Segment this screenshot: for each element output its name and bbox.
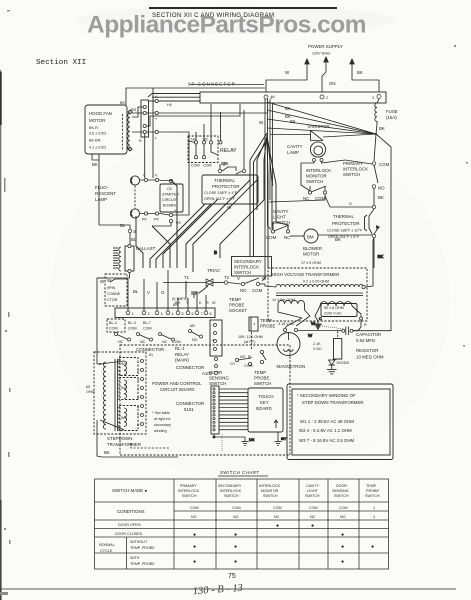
HV primary left wire	[265, 284, 276, 287]
power and control circuit board dashed box	[120, 345, 290, 455]
svg-text:SECONDARY: SECONDARY	[218, 484, 242, 488]
svg-text:SWITCH: SWITCH	[182, 494, 197, 498]
svg-text:COM: COM	[109, 327, 118, 331]
svg-text:COM: COM	[172, 340, 181, 344]
svg-text:B: B	[214, 250, 217, 255]
svg-text:T1: T1	[184, 275, 190, 280]
ballast	[97, 244, 156, 284]
svg-text:CAVITY: CAVITY	[273, 209, 289, 214]
svg-text:W1: W1	[121, 362, 127, 366]
temp probe socket	[229, 297, 247, 313]
svg-text:0.2 ± 0.05 OHM: 0.2 ± 0.05 OHM	[303, 280, 329, 284]
svg-text:T2: T2	[224, 275, 230, 280]
svg-text:RELAY: RELAY	[220, 148, 237, 154]
magnetron V1	[277, 328, 343, 369]
svg-text:BK: BK	[104, 450, 110, 455]
svg-text:COM: COM	[191, 164, 200, 168]
svg-text:THERMAL: THERMAL	[333, 214, 355, 219]
svg-text:PROBE: PROBE	[366, 489, 379, 493]
svg-text:TEMP. PROBE: TEMP. PROBE	[130, 562, 155, 566]
svg-text:TEMP: TEMP	[254, 370, 266, 375]
svg-text:POWER AND CONTROL: POWER AND CONTROL	[152, 381, 202, 386]
svg-text:TEMP: TEMP	[229, 297, 241, 302]
svg-text:OPEN 251°F ± 5°F: OPEN 251°F ± 5°F	[328, 235, 360, 239]
svg-text:FUSE: FUSE	[386, 109, 398, 114]
svg-text:NC: NC	[140, 340, 146, 344]
svg-text:PRIMARY: PRIMARY	[343, 161, 363, 166]
secondary interlock switch	[228, 257, 272, 294]
svg-text:* SECONDARY WINDING OF: * SECONDARY WINDING OF	[297, 393, 356, 398]
svg-text:3.6 ± 0.5Ω: 3.6 ± 0.5Ω	[89, 132, 106, 136]
svg-text:NC: NC	[284, 235, 290, 240]
svg-text:●: ●	[341, 532, 344, 538]
svg-text:NC: NC	[118, 340, 124, 344]
svg-text:COM: COM	[128, 327, 137, 331]
temp probe	[238, 317, 275, 350]
svg-text:SWITCH: SWITCH	[209, 381, 226, 386]
svg-text:MOTOR: MOTOR	[89, 118, 105, 123]
svg-text:SWITCH: SWITCH	[224, 494, 239, 498]
svg-text:DOOR: DOOR	[336, 484, 347, 488]
svg-text:HX: HX	[167, 103, 173, 107]
svg-text:W1 1 - 2 38.5V AC 48 OHM: W1 1 - 2 38.5V AC 48 OHM	[300, 419, 354, 424]
svg-text:R: R	[139, 139, 142, 143]
fluorescent lamp	[95, 88, 160, 222]
svg-text:CONNECTOR: CONNECTOR	[176, 365, 204, 370]
svg-text:NO: NO	[378, 186, 385, 191]
svg-text:CTOR: CTOR	[107, 298, 118, 302]
filament ground W	[315, 317, 345, 329]
svg-text:DOOR OPEN: DOOR OPEN	[118, 523, 141, 527]
svg-text:COM: COM	[252, 288, 263, 293]
hood fan wires	[92, 88, 268, 225]
switch chart title	[218, 470, 268, 476]
svg-text:SWITCH: SWITCH	[334, 494, 349, 498]
svg-text:RELAY: RELAY	[175, 352, 189, 357]
svg-text:2.1K: 2.1K	[313, 342, 321, 346]
svg-text:75: 75	[228, 573, 236, 580]
temp probe switch	[254, 350, 271, 386]
svg-text:0.92 MFD: 0.92 MFD	[356, 338, 375, 343]
svg-text:CONNECTOR: CONNECTOR	[136, 347, 164, 352]
svg-text:CONNECTOR: CONNECTOR	[176, 401, 204, 406]
svg-text:4: 4	[172, 312, 174, 316]
svg-text:3.15 V AC: 3.15 V AC	[278, 322, 295, 326]
svg-text:VARISTOR: VARISTOR	[308, 124, 330, 129]
svg-text:CAVITY: CAVITY	[287, 144, 303, 149]
svg-text:8: 8	[210, 312, 212, 316]
svg-text:(MAIN): (MAIN)	[175, 358, 189, 363]
svg-text:R: R	[206, 301, 209, 305]
svg-text:5: 5	[182, 312, 184, 316]
hood fan motor box	[85, 105, 127, 154]
svg-text:BL-3: BL-3	[128, 321, 136, 325]
svg-text:at right for: at right for	[154, 417, 171, 421]
connector RL-1 relay main labels	[136, 346, 213, 376]
svg-text:NO: NO	[191, 515, 197, 519]
row door open	[118, 523, 314, 529]
diode D1	[329, 359, 350, 369]
strip wire labels	[133, 289, 216, 305]
svg-text:LAMP: LAMP	[287, 150, 299, 155]
power supply label	[308, 44, 343, 56]
svg-text:STEPDOWN: STEPDOWN	[107, 436, 132, 441]
row door closed	[115, 532, 344, 538]
conditions rows	[117, 506, 375, 519]
svg-text:BL-4: BL-4	[109, 321, 117, 325]
node fuse-junction BK	[375, 126, 385, 135]
scan top edge line	[149, 7, 337, 9]
svg-text:10 MEG OHM: 10 MEG OHM	[356, 355, 384, 360]
relay main contact row	[107, 319, 203, 344]
svg-text:G: G	[349, 202, 352, 206]
svg-text:A102: A102	[202, 371, 213, 376]
svg-text:BK: BK	[285, 106, 291, 111]
svg-text:●: ●	[234, 532, 237, 538]
svg-text:POWER SUPPLY: POWER SUPPLY	[308, 44, 343, 49]
svg-text:50 ± 8 OHM: 50 ± 8 OHM	[324, 306, 344, 310]
bus pin 1	[264, 95, 268, 99]
primary interlock switch	[343, 134, 390, 206]
row normal cycle	[99, 540, 374, 566]
svg-text:DIODE: DIODE	[337, 360, 350, 365]
ballast S terminal	[99, 223, 137, 246]
svg-text:PROBE: PROBE	[229, 303, 244, 308]
svg-text:9P CONNECTOR: 9P CONNECTOR	[188, 82, 236, 87]
cavity light switch	[266, 209, 290, 240]
svg-text:BR: BR	[221, 161, 227, 166]
svg-text:BL: BL	[133, 289, 139, 294]
svg-text:BK: BK	[335, 237, 341, 242]
svg-text:* See table: * See table	[152, 411, 170, 415]
svg-text:5101: 5101	[184, 407, 194, 412]
svg-text:INTERLOCK: INTERLOCK	[220, 489, 242, 493]
svg-text:SECONDARY: SECONDARY	[234, 259, 262, 264]
svg-text:BR: BR	[131, 108, 136, 112]
wire fan pin1 to fuse node	[267, 102, 376, 134]
right outer wire BK	[376, 134, 391, 268]
svg-text:2: 2	[148, 312, 150, 316]
svg-text:CLOSE 158°F ± 4°F: CLOSE 158°F ± 4°F	[204, 191, 238, 195]
svg-text:INTERLOCK: INTERLOCK	[259, 484, 281, 488]
bus pin 2	[320, 95, 324, 99]
svg-text:PK: PK	[154, 218, 159, 222]
triac	[163, 268, 230, 295]
svg-text:FLUO-: FLUO-	[95, 185, 109, 190]
svg-text:DN: DN	[249, 438, 255, 442]
svg-text:W: W	[271, 94, 275, 99]
svg-text:BL-7: BL-7	[143, 321, 151, 325]
svg-text:BOARD: BOARD	[256, 406, 272, 411]
svg-text:AppliancePartsPros.com: AppliancePartsPros.com	[87, 12, 366, 39]
svg-text:BK: BK	[120, 101, 125, 105]
ground at diode	[327, 370, 337, 374]
svg-text:O: O	[161, 290, 165, 295]
svg-text:STEP DOWN TRANSFORMER: STEP DOWN TRANSFORMER	[302, 400, 364, 405]
svg-text:SWITCH: SWITCH	[234, 270, 251, 275]
capacitor C1	[342, 320, 381, 344]
svg-text:MONITOR: MONITOR	[261, 489, 279, 493]
door sensing switch	[209, 355, 253, 386]
svg-text:1: 1	[132, 312, 134, 316]
svg-text:HOOD FAN: HOOD FAN	[89, 111, 112, 116]
svg-text:65: 65	[86, 385, 90, 389]
svg-text:INTERLOCK: INTERLOCK	[178, 489, 200, 493]
svg-text:2: 2	[326, 96, 328, 100]
svg-text:NO: NO	[240, 288, 247, 293]
thermal protector (hood)	[202, 110, 258, 210]
svg-text:WITHOUT: WITHOUT	[130, 540, 148, 544]
table header texts	[112, 484, 380, 498]
svg-text:PRIMARY: PRIMARY	[180, 484, 197, 488]
svg-text:NO: NO	[340, 515, 346, 519]
svg-text:O2: O2	[167, 187, 172, 191]
svg-text:1: 1	[373, 506, 375, 510]
svg-text:CIRCUIT: CIRCUIT	[162, 198, 178, 202]
svg-text:NC: NC	[162, 340, 168, 344]
svg-text:BL: BL	[120, 223, 126, 228]
varistor RV1	[270, 119, 376, 141]
HV secondary high voltage winding	[315, 302, 363, 322]
svg-text:V: V	[147, 290, 150, 295]
capacitor 0.1MFD	[172, 284, 197, 307]
connector A102 lower pins	[215, 358, 218, 375]
svg-text:INTERLOCK: INTERLOCK	[343, 167, 368, 172]
right outer wire to capacitor	[353, 268, 391, 331]
svg-text:BK-R:: BK-R:	[89, 126, 99, 130]
touch key board	[248, 388, 283, 432]
interlock monitor switch	[269, 168, 372, 207]
svg-text:CONNE: CONNE	[107, 292, 121, 296]
svg-text:●: ●	[311, 523, 314, 529]
svg-text:BM: BM	[307, 235, 314, 240]
svg-text:SWITCH: SWITCH	[306, 179, 323, 184]
svg-text:COM: COM	[244, 364, 253, 368]
svg-text:(15A): (15A)	[386, 115, 397, 120]
svg-text:W3 7 - 8 16.8V AC 2.5 OH: W3 7 - 8 16.8V AC 2.5 OHM	[299, 438, 354, 443]
blower motor BM	[290, 229, 372, 265]
svg-text:MONITOR: MONITOR	[306, 174, 327, 179]
svg-text:CLOSE 186°F ± 10°F: CLOSE 186°F ± 10°F	[327, 229, 363, 233]
9P connector bus	[152, 92, 386, 103]
svg-text:BK: BK	[357, 70, 363, 75]
svg-text:COM: COM	[273, 506, 282, 510]
svg-text:3: 3	[372, 96, 374, 100]
svg-text:WITH: WITH	[130, 556, 140, 560]
svg-text:NO: NO	[240, 355, 246, 359]
svg-text:●: ●	[341, 544, 344, 550]
svg-text:THERMAL: THERMAL	[214, 178, 236, 183]
switch chart table	[95, 479, 389, 569]
svg-text:●: ●	[193, 559, 196, 565]
svg-text:4.1 ± 0.5Ω: 4.1 ± 0.5Ω	[89, 146, 106, 150]
svg-text:SENSING: SENSING	[332, 489, 349, 493]
svg-text:7: 7	[155, 118, 157, 122]
svg-text:SWITCH CHART: SWITCH CHART	[220, 470, 260, 475]
svg-text:●: ●	[193, 544, 196, 550]
svg-text:PROBE: PROBE	[260, 324, 275, 329]
fuse F1	[375, 99, 398, 134]
svg-text:●: ●	[371, 544, 374, 550]
svg-text:BK-BR:: BK-BR:	[89, 139, 101, 143]
svg-text:●: ●	[276, 523, 279, 529]
svg-text:W2: W2	[121, 386, 127, 390]
central wire fan ribbons	[136, 133, 288, 272]
9P connector pointer line	[190, 84, 264, 86]
strip feeder wires	[97, 270, 206, 364]
HV secondary filament winding	[272, 298, 310, 326]
svg-text:HIGH VOLTAGE TRANSFORMER: HIGH VOLTAGE TRANSFORMER	[272, 272, 339, 277]
svg-text:BLOWER: BLOWER	[303, 246, 322, 251]
cavity lamp	[287, 142, 372, 191]
svg-text:7: 7	[201, 312, 203, 316]
high voltage transformer box	[268, 268, 367, 321]
svg-text:4: 4	[212, 339, 214, 343]
svg-text:Section XII: Section XII	[36, 59, 86, 67]
svg-text:CONDITIONS: CONDITIONS	[117, 509, 145, 514]
magnetron filament node	[285, 316, 313, 338]
svg-text:SWITCH: SWITCH	[254, 381, 271, 386]
svg-text:PK: PK	[142, 218, 147, 222]
svg-text:3: 3	[373, 515, 375, 519]
svg-text:10K: 12K OHM: 10K: 12K OHM	[238, 335, 263, 339]
svg-text:LAMP: LAMP	[95, 197, 107, 202]
svg-text:CYCLE: CYCLE	[100, 549, 113, 553]
svg-text:BOARD: BOARD	[163, 204, 176, 208]
ground at HV filament	[311, 321, 322, 329]
step down transformer	[86, 352, 178, 457]
svg-text:W3: W3	[121, 416, 127, 420]
svg-text:MAGNETRON: MAGNETRON	[277, 364, 306, 369]
svg-text:9PIN: 9PIN	[107, 286, 116, 290]
svg-text:14 ± 5m OHM: 14 ± 5m OHM	[272, 298, 295, 302]
svg-text:LIGHT: LIGHT	[307, 489, 319, 493]
svg-text:M2: M2	[190, 324, 195, 328]
wire bundle from pin1 hub	[262, 99, 273, 281]
svg-text:51: 51	[149, 353, 153, 357]
svg-text:SOCKET: SOCKET	[229, 308, 247, 313]
svg-text:3: 3	[161, 312, 163, 316]
svg-text:COM: COM	[232, 506, 241, 510]
svg-text:CAVITY: CAVITY	[306, 484, 320, 488]
power supply arrows	[266, 57, 379, 92]
svg-text:BK: BK	[92, 162, 98, 167]
svg-text:MOTOR: MOTOR	[303, 252, 319, 257]
svg-text:GN: GN	[329, 81, 336, 86]
thermal protector (blower)	[327, 205, 380, 268]
svg-text:TRIAC: TRIAC	[207, 268, 220, 273]
svg-text:KEY: KEY	[260, 400, 269, 405]
svg-text:NORMAL: NORMAL	[99, 543, 115, 547]
svg-text:●: ●	[234, 559, 237, 565]
svg-text:secondary: secondary	[154, 423, 171, 427]
HV primary right terminal	[362, 238, 374, 289]
scan left edge	[0, 70, 2, 600]
svg-text:SWITCH: SWITCH	[343, 172, 360, 177]
svg-text:W2 4 - 6 2.8V AC 1.1 OH: W2 4 - 6 2.8V AC 1.1 OHM	[299, 428, 352, 433]
svg-text:R: R	[364, 323, 367, 327]
svg-text:GY: GY	[230, 362, 236, 366]
svg-text:SWITCH: SWITCH	[263, 494, 278, 498]
svg-text:COM: COM	[143, 327, 152, 331]
svg-text:COM: COM	[203, 164, 212, 168]
svg-text:C: C	[319, 317, 322, 321]
scan bottom line	[0, 588, 456, 590]
svg-text:2100 V AC: 2100 V AC	[324, 312, 342, 316]
9 pin connector label box	[105, 274, 127, 306]
svg-text:W: W	[212, 301, 216, 305]
svg-text:17 ± 3 OHM: 17 ± 3 OHM	[301, 261, 321, 265]
svg-text:winding: winding	[154, 429, 167, 433]
svg-text:BK: BK	[379, 126, 385, 131]
svg-text:BK: BK	[378, 254, 384, 259]
svg-text:RESISTOR: RESISTOR	[356, 348, 378, 353]
resistor R1	[313, 331, 384, 360]
svg-text:NC: NC	[310, 515, 316, 519]
svg-text:COM: COM	[379, 162, 390, 167]
svg-text:6: 6	[192, 312, 194, 316]
svg-text:TRANSFORMER: TRANSFORMER	[107, 442, 141, 447]
svg-text:SWITCH: SWITCH	[305, 494, 320, 498]
svg-text:COM: COM	[339, 506, 348, 510]
svg-text:●: ●	[341, 559, 344, 565]
svg-text:V: V	[237, 276, 240, 281]
svg-text:DOOR CLOSED: DOOR CLOSED	[115, 532, 143, 536]
svg-text:COM: COM	[309, 506, 318, 510]
HV transformer core	[276, 293, 363, 295]
svg-text:(at RT): (at RT)	[244, 340, 255, 344]
svg-text:TEMP. PROBE: TEMP. PROBE	[130, 546, 155, 550]
svg-text:●: ●	[234, 544, 237, 550]
svg-text:SENSING: SENSING	[209, 376, 229, 381]
HV transformer primary winding	[276, 284, 363, 287]
svg-text:CAPACITOR: CAPACITOR	[356, 332, 381, 337]
svg-text:BK: BK	[290, 119, 296, 124]
svg-text:INTERLOCK: INTERLOCK	[306, 168, 331, 173]
svg-text:NC: NC	[274, 515, 280, 519]
svg-text:OHM: OHM	[86, 390, 95, 394]
ground touch keyboard	[213, 434, 255, 452]
hood fan connector	[141, 95, 158, 140]
svg-text:RL-1: RL-1	[175, 346, 185, 351]
svg-text:COM: COM	[190, 506, 199, 510]
secondary winding table box	[287, 384, 393, 460]
svg-text:RESCENT: RESCENT	[95, 191, 116, 196]
svg-text:TOUCH: TOUCH	[258, 394, 274, 399]
svg-text:SWITCH: SWITCH	[365, 494, 380, 498]
svg-text:NO: NO	[233, 515, 239, 519]
svg-text:120V 60Hz: 120V 60Hz	[312, 52, 330, 56]
connector 5101 ribbon	[176, 386, 248, 434]
svg-text:SWITCH MADE ●: SWITCH MADE ●	[112, 488, 147, 493]
svg-text:CIRCUIT BOARD: CIRCUIT BOARD	[160, 387, 195, 392]
relay RY1	[188, 104, 237, 168]
svg-text:PROTECTOR: PROTECTOR	[212, 184, 239, 189]
O2 starter circuit board	[152, 140, 189, 226]
svg-text:GY: GY	[281, 437, 287, 441]
svg-text:●: ●	[193, 532, 196, 538]
ground right of keyboard	[275, 432, 287, 446]
svg-text:LIGHT: LIGHT	[273, 215, 286, 220]
see table note	[146, 410, 171, 433]
svg-text:INTERLOCK: INTERLOCK	[234, 265, 259, 270]
hood fan motor winding	[122, 110, 132, 151]
svg-text:PROTECTOR: PROTECTOR	[332, 221, 359, 226]
main 9 pin connector strip	[115, 308, 215, 318]
SECTION: header	[75, 6, 395, 34]
svg-text:BK: BK	[378, 195, 384, 200]
connector A102 strip	[210, 320, 222, 356]
